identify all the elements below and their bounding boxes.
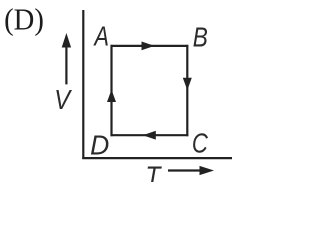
arrow A to B: [142, 42, 155, 51]
svg-text:V: V: [54, 84, 72, 115]
wire C-D (bottom edge): [111, 134, 189, 136]
svg-text:A: A: [93, 21, 109, 52]
T axis: [82, 157, 232, 159]
T axis direction arrow: [168, 166, 214, 175]
svg-text:T: T: [145, 161, 162, 182]
svg-text:D: D: [90, 129, 109, 160]
wire D-A (left edge): [110, 45, 112, 136]
arrow B to C: [183, 78, 192, 90]
svg-text:B: B: [193, 22, 208, 53]
wire B-C (right edge): [186, 45, 188, 136]
arrow C to D: [143, 131, 156, 140]
V axis direction arrow: [62, 33, 71, 84]
wire A-B (top edge, isochoric-like): [111, 45, 189, 47]
svg-text:(D): (D): [4, 2, 44, 37]
V axis: [82, 10, 84, 159]
svg-text:C: C: [192, 128, 209, 159]
arrow D to A: [107, 90, 116, 102]
